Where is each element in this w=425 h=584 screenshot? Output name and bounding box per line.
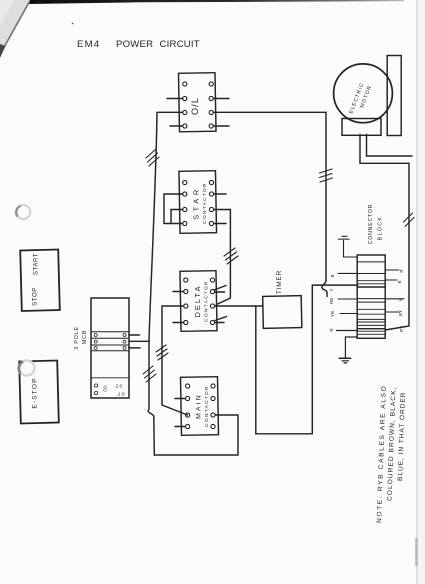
svg-text:CONTACTOR: CONTACTOR xyxy=(204,280,210,322)
svg-text:B: B xyxy=(397,280,402,283)
svg-text:R: R xyxy=(399,269,404,273)
svg-text:BLUE, IN THAT ORDER: BLUE, IN THAT ORDER xyxy=(397,391,407,481)
svg-text:Y: Y xyxy=(398,298,403,301)
svg-text:2 0: 2 0 xyxy=(116,384,123,390)
svg-text:CIRCUIT: CIRCUIT xyxy=(160,39,200,50)
svg-text:NOTE: RYB CABLES ARE ALSO: NOTE: RYB CABLES ARE ALSO xyxy=(376,384,388,523)
svg-text:START: START xyxy=(34,253,40,275)
svg-text:Y: Y xyxy=(329,288,334,291)
svg-text:TIMER: TIMER xyxy=(276,270,283,294)
svg-text:MAIN: MAIN xyxy=(196,393,203,419)
svg-text:CONTACTOR: CONTACTOR xyxy=(204,385,210,427)
svg-text:O/L: O/L xyxy=(190,97,200,115)
svg-text:BLOCK: BLOCK xyxy=(378,216,384,241)
svg-text:YB: YB xyxy=(330,311,335,317)
svg-text:BY: BY xyxy=(398,310,403,316)
svg-text:E-STOP: E-STOP xyxy=(32,377,39,408)
svg-text:C0: C0 xyxy=(103,386,108,392)
svg-text:MCB: MCB xyxy=(82,330,88,344)
svg-text:CONTACTOR: CONTACTOR xyxy=(202,182,208,224)
svg-text:POWER: POWER xyxy=(116,39,153,50)
svg-text:3 POLE: 3 POLE xyxy=(74,326,80,349)
svg-text:STOP: STOP xyxy=(33,287,39,306)
svg-text:RY: RY xyxy=(399,326,404,332)
svg-text:,1 0: ,1 0 xyxy=(117,392,125,398)
svg-text:COLOURED BROWN, BLACK,: COLOURED BROWN, BLACK, xyxy=(387,386,398,501)
svg-text:B: B xyxy=(330,274,335,277)
svg-text:R: R xyxy=(329,328,334,332)
svg-text:DELTA: DELTA xyxy=(193,284,202,317)
svg-text:STAR: STAR xyxy=(192,186,201,220)
svg-text:RB: RB xyxy=(329,298,334,304)
svg-text:CONNECTOR: CONNECTOR xyxy=(368,204,374,245)
svg-text:EM4: EM4 xyxy=(77,39,100,50)
